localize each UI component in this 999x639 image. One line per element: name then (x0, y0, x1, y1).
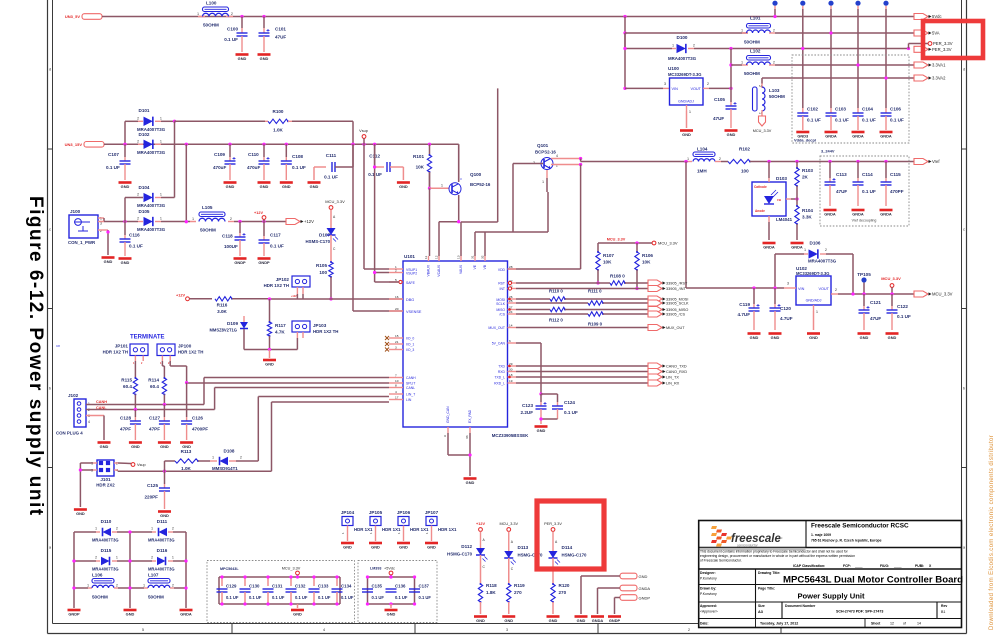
svg-text:MCU_3.3V: MCU_3.3V (325, 199, 345, 204)
svg-text:+12V: +12V (476, 522, 485, 526)
svg-text:GND: GND (809, 335, 818, 340)
red highlight box D114 (537, 501, 604, 569)
diode D105 (138, 221, 143, 223)
svg-text:JP102: JP102 (276, 277, 290, 282)
junction R103 R104 (795, 197, 798, 200)
junction node C100 (240, 15, 243, 18)
wire D100 branch (624, 33, 626, 49)
svg-text:R111 0: R111 0 (588, 289, 602, 294)
svg-text:Approved:: Approved: (700, 604, 717, 608)
svg-text:Vsup: Vsup (359, 129, 368, 133)
svg-text:R118: R118 (486, 583, 497, 588)
svg-text:I/O_0: I/O_0 (406, 337, 414, 341)
svg-text:14: 14 (509, 323, 513, 327)
svg-text:C100: C100 (227, 27, 238, 32)
svg-text:D107: D107 (319, 233, 330, 238)
svg-text:L105: L105 (202, 205, 213, 210)
junction R105-DBG (329, 297, 332, 300)
svg-text:33905_SCLK: 33905_SCLK (666, 302, 689, 306)
ground J102 pin3 (98, 441, 111, 444)
svg-text:2: 2 (835, 288, 837, 292)
svg-text:1: 1 (116, 556, 118, 560)
svg-text:50OHM: 50OHM (744, 71, 760, 76)
flag 33905_SCLK (648, 300, 662, 306)
svg-text:R103: R103 (802, 168, 813, 173)
svg-text:L107: L107 (148, 573, 159, 578)
flag 5VA (914, 30, 928, 36)
svg-text:GND: GND (750, 335, 759, 340)
svg-text:5: 5 (395, 278, 397, 282)
svg-text:GND: GND (399, 544, 408, 549)
svg-text:1: 1 (212, 456, 214, 460)
wire bridge verticals (73, 532, 75, 608)
svg-text:3.0K: 3.0K (217, 309, 227, 314)
svg-text:GND: GND (260, 184, 269, 189)
svg-text:FCP:: FCP: (843, 564, 851, 568)
resistor R100 (265, 120, 268, 122)
svg-text:<Approver>: <Approver> (700, 610, 718, 614)
wire bank2 gnd (390, 604, 392, 608)
capacitor C136 (386, 588, 397, 590)
capacitor C126 (186, 383, 188, 417)
svg-text:0.1 UF: 0.1 UF (226, 595, 239, 600)
svg-text:R109 0: R109 0 (588, 322, 603, 327)
junction R114 CANH (163, 403, 166, 406)
ground C122 (886, 332, 899, 335)
flag 33905_MOSI (648, 296, 662, 302)
svg-text:TXD: TXD (498, 365, 505, 369)
wire U102 VIN drop (685, 162, 687, 289)
svg-text:15: 15 (395, 334, 399, 338)
svg-text:0.1 UF: 0.1 UF (341, 595, 354, 600)
svg-text:+5Vdc: +5Vdc (384, 567, 395, 571)
svg-text:JP101: JP101 (115, 344, 129, 349)
svg-text:MCU_3.3V: MCU_3.3V (658, 241, 678, 246)
svg-text:J100: J100 (70, 209, 81, 214)
wire LIN riser (271, 402, 273, 471)
svg-text:MPC5643L Dual Motor Controller: MPC5643L Dual Motor Controller Board (783, 575, 963, 586)
svg-text:R100: R100 (273, 109, 284, 114)
svg-text:MRA4007T3G: MRA4007T3G (92, 538, 119, 543)
svg-text:PUBI:: PUBI: (915, 564, 924, 568)
svg-text:GND: GND (504, 618, 513, 623)
wire D107 chain (330, 209, 332, 228)
svg-text:GND: GND (260, 56, 269, 61)
svg-text:C116: C116 (129, 233, 140, 238)
svg-text:c: c (963, 228, 965, 232)
svg-text:JP104: JP104 (341, 510, 355, 515)
svg-text:50OHM: 50OHM (200, 228, 216, 233)
svg-text:C120: C120 (780, 306, 791, 311)
svg-text:0.1 UF: 0.1 UF (835, 118, 849, 123)
svg-text:PER_3.3V: PER_3.3V (932, 47, 952, 52)
svg-text:Vsup: Vsup (137, 463, 146, 467)
svg-text:2: 2 (172, 584, 174, 588)
svg-text:2: 2 (137, 193, 139, 197)
svg-text:12: 12 (890, 622, 894, 626)
svg-text:TP105: TP105 (857, 272, 871, 277)
svg-text:4: 4 (395, 390, 397, 394)
svg-text:LM393: LM393 (370, 567, 381, 571)
svg-text:GND: GND (160, 513, 169, 518)
svg-text:1. maje 1009: 1. maje 1009 (811, 533, 831, 537)
svg-text:HDR 1X1: HDR 1X1 (438, 527, 457, 532)
svg-text:JP100: JP100 (178, 344, 192, 349)
junction C108 node (285, 143, 288, 146)
resistor R119 (507, 584, 511, 602)
flag 33905_/RST (648, 280, 662, 286)
junction R106 INT line (635, 287, 638, 290)
svg-text:VOUT: VOUT (690, 87, 701, 91)
svg-text:1: 1 (160, 117, 162, 121)
svg-text:GND: GND (343, 544, 352, 549)
svg-text:1: 1 (160, 217, 162, 221)
svg-text:R113: R113 (181, 449, 192, 454)
svg-text:This document contains informa: This document contains information propr… (700, 550, 849, 554)
svg-text:13: 13 (457, 255, 461, 259)
svg-text:4: 4 (556, 154, 558, 158)
wire D105 or-node vertical (185, 144, 187, 221)
svg-text:GND: GND (76, 511, 85, 516)
svg-text:DBG: DBG (406, 298, 414, 302)
svg-text:4: 4 (323, 628, 325, 632)
svg-text:33905_MISO: 33905_MISO (666, 308, 688, 312)
svg-text:GND: GND (399, 184, 408, 189)
svg-text:MCU_3.3V: MCU_3.3V (753, 129, 772, 133)
wire VOUT rail (838, 293, 914, 295)
svg-text:MCU_3.3V: MCU_3.3V (932, 292, 953, 297)
svg-text:I/O_3: I/O_3 (406, 348, 414, 352)
ground R120 (547, 615, 560, 618)
svg-text:GND: GND (466, 480, 475, 485)
svg-text:D106: D106 (810, 241, 821, 246)
svg-text:100UF: 100UF (224, 244, 238, 249)
svg-text:MRA4007T3G: MRA4007T3G (137, 150, 166, 155)
junction node C101 (262, 15, 265, 18)
junction bridge row2 (72, 559, 75, 562)
svg-text:CANH: CANH (96, 400, 107, 404)
svg-text:R117: R117 (275, 323, 286, 328)
svg-text:MRA4007T3G: MRA4007T3G (668, 56, 697, 61)
svg-text:1.0K: 1.0K (273, 128, 283, 133)
wire bank1 rails (219, 576, 340, 578)
wire U102 gnd pin (813, 305, 815, 311)
svg-text:C129: C129 (226, 584, 237, 589)
terminal UN3_15V (84, 142, 104, 148)
svg-text:270: 270 (514, 590, 522, 595)
wire U100 VOUT (703, 87, 709, 89)
ground C121 (858, 332, 871, 335)
diode D108 (210, 460, 217, 462)
svg-text:C126: C126 (192, 416, 203, 421)
capacitor C110 (263, 144, 265, 157)
flag +12V (286, 219, 300, 225)
svg-text:2: 2 (137, 140, 139, 144)
svg-text:Figure 6-12. Power supply unit: Figure 6-12. Power supply unit (25, 196, 46, 517)
svg-text:CON_1_PWR: CON_1_PWR (68, 240, 96, 245)
svg-text:Drawing Title:: Drawing Title: (758, 571, 780, 575)
ground C127 (158, 441, 171, 444)
svg-text:GND: GND (771, 335, 780, 340)
ground C102 (796, 131, 809, 134)
svg-text:C111: C111 (326, 153, 337, 158)
svg-text:2: 2 (231, 12, 233, 16)
svg-text:c: c (49, 228, 51, 232)
svg-text:C101: C101 (275, 27, 286, 32)
ground C109 (224, 181, 237, 184)
svg-text:Sheet: Sheet (871, 622, 881, 626)
svg-text:5: 5 (142, 628, 144, 632)
wire D101 branch vertical left (124, 121, 126, 144)
transistor Q100 (449, 183, 461, 195)
svg-text:50OHM: 50OHM (769, 94, 785, 99)
svg-text:31: 31 (471, 255, 475, 259)
svg-text:2: 2 (95, 556, 97, 560)
svg-text:Power Supply Unit: Power Supply Unit (797, 592, 865, 601)
wire Q101 loop to VE VB (475, 231, 513, 233)
svg-text:1: 1 (95, 527, 97, 531)
dashed box Vref decoupling (820, 156, 909, 226)
svg-text:Vref decoupling: Vref decoupling (852, 219, 877, 223)
bottom border frame lines (48, 633, 967, 635)
svg-text:C124: C124 (564, 400, 575, 405)
svg-text:47PF: 47PF (149, 427, 160, 432)
diode D102 (138, 143, 143, 145)
red highlight box top right (923, 21, 983, 58)
svg-text:GNDA: GNDA (592, 618, 604, 623)
svg-text:MRA4007T3G: MRA4007T3G (148, 538, 175, 543)
connector J102 (74, 399, 86, 427)
svg-text:C136: C136 (395, 584, 406, 589)
svg-text:10K: 10K (642, 260, 651, 265)
svg-text:MRA4007T3G: MRA4007T3G (137, 203, 166, 208)
ground C116 (119, 257, 132, 260)
ground C103 (825, 131, 838, 134)
flag Vref (914, 159, 928, 165)
ground C125 (158, 510, 171, 513)
capacitor C129 (221, 577, 223, 586)
svg-text:C103: C103 (835, 107, 846, 112)
wire SCLK line with resistor (516, 302, 588, 304)
svg-text:J102: J102 (68, 393, 79, 398)
svg-text:of Freescale Semiconductor.: of Freescale Semiconductor. (700, 559, 742, 563)
svg-text:GND: GND (577, 618, 586, 623)
svg-text:33: 33 (465, 435, 469, 439)
junction Vsup-D105 riser (185, 143, 188, 146)
svg-text:3: 3 (787, 282, 789, 286)
border zone ticks left (48, 148, 53, 150)
svg-text:3..244V: 3..244V (821, 149, 835, 154)
capacitor C101 (263, 17, 265, 29)
U101 RST INT circles (508, 281, 511, 284)
svg-text:BCPS2-16: BCPS2-16 (535, 150, 556, 155)
svg-text:Freescale Semiconductor RCSC: Freescale Semiconductor RCSC (811, 523, 909, 530)
svg-text:50OHM: 50OHM (92, 595, 108, 600)
svg-text:C130: C130 (249, 584, 260, 589)
svg-text:GND: GND (160, 444, 169, 449)
svg-text:765 61 Roznov p. R. Czech repu: 765 61 Roznov p. R. Czech republic, Euro… (811, 539, 882, 543)
U101 MOSI TXD red dots (508, 298, 511, 301)
wire JP100 right pin to SPLIT (169, 361, 171, 366)
wire J100 pin1 to 12V rail (98, 217, 104, 219)
svg-text:5VA: 5VA (932, 31, 940, 36)
zener ref D103 (752, 182, 786, 216)
svg-text:d: d (49, 68, 51, 72)
svg-text:1: 1 (804, 248, 806, 252)
svg-text:270: 270 (559, 590, 567, 595)
junction bridge row1 (128, 530, 131, 533)
svg-text:33905_/INT: 33905_/INT (666, 287, 687, 291)
svg-text:R105: R105 (316, 263, 327, 268)
ground C104 (852, 131, 865, 134)
ground U102 (807, 332, 820, 335)
svg-text:12: 12 (435, 255, 439, 259)
svg-text:Downloaded from Elcodis.com el: Downloaded from Elcodis.com electronic c… (989, 435, 995, 630)
svg-text:C128: C128 (120, 416, 131, 421)
svg-text:C121: C121 (870, 300, 881, 305)
svg-text:C125: C125 (147, 483, 158, 488)
svg-text:VE: VE (473, 264, 477, 269)
svg-text:C119: C119 (739, 302, 750, 307)
ground C110 (258, 181, 271, 184)
svg-text:GNDP: GNDP (234, 260, 246, 265)
resistor R103 (795, 160, 798, 163)
freescale logo marks (711, 526, 717, 529)
ground C105 (725, 129, 738, 132)
capacitor C102 (802, 108, 804, 113)
svg-text:0.1 UF: 0.1 UF (862, 189, 876, 194)
svg-text:470uF: 470uF (213, 165, 226, 170)
svg-text:60.4: 60.4 (123, 384, 132, 389)
ground C114 GNDA (852, 209, 865, 212)
svg-text:R108 0: R108 0 (610, 274, 625, 279)
wire VSENSE riser (352, 144, 354, 311)
capacitor C104 (857, 108, 859, 113)
power arrow MCU_3.3V down (759, 116, 766, 126)
svg-text:EX_PAD: EX_PAD (468, 409, 472, 423)
wire J100 pin2 to gnd (98, 229, 108, 231)
svg-text:CANL: CANL (406, 386, 415, 390)
svg-text:C127: C127 (149, 416, 160, 421)
svg-text:HDR 2X2: HDR 2X2 (96, 483, 115, 488)
svg-text:0.1 UF: 0.1 UF (318, 595, 331, 600)
svg-text:MRA4007T3G: MRA4007T3G (137, 227, 166, 232)
svg-text:MCU_3.3V: MCU_3.3V (282, 567, 301, 571)
svg-text:engineering design, procuremen: engineering design, procurement or manuf… (700, 554, 855, 558)
ground GND bridge (124, 609, 137, 612)
junction C110 node (262, 143, 265, 146)
capacitor C108 (285, 144, 287, 157)
svg-text:3: 3 (664, 82, 666, 86)
svg-text:VAUX: VAUX (459, 264, 463, 274)
capacitor C128 (134, 410, 136, 418)
U101 SAFE circle (399, 280, 402, 283)
ground C107 (119, 181, 132, 184)
led D114 chain (552, 531, 554, 551)
svg-text:10K: 10K (603, 260, 612, 265)
svg-text:HDR 1X1: HDR 1X1 (354, 527, 373, 532)
svg-text:GND: GND (121, 184, 130, 189)
capacitor C118 (239, 222, 241, 234)
ground C111 (308, 181, 321, 184)
svg-text:R116: R116 (217, 303, 228, 308)
ground C126 (180, 441, 193, 444)
diode D111 (130, 531, 152, 533)
svg-text:33905_/RST: 33905_/RST (666, 282, 688, 286)
svg-text:TERMINATE: TERMINATE (130, 335, 165, 341)
svg-text:HDR 1X2 TH: HDR 1X2 TH (103, 350, 128, 355)
svg-text:of: of (903, 622, 906, 626)
svg-text:Vref: Vref (932, 159, 940, 164)
wire GND_CAN EX_PAD (447, 433, 449, 455)
svg-text:GND: GND (126, 611, 135, 616)
vertical drop 4 3.3VA1 (857, 9, 859, 108)
svg-text:FIUO:: FIUO: (880, 564, 889, 568)
wire VE VB from Q101 loop (474, 232, 476, 256)
svg-text:GND: GND (121, 260, 130, 265)
svg-text:+12V: +12V (291, 295, 297, 298)
svg-text:HSMG-C170: HSMG-C170 (447, 552, 473, 557)
svg-text:HDR 1X2 TH: HDR 1X2 TH (313, 329, 338, 334)
svg-text:1: 1 (172, 556, 174, 560)
svg-text:SCLK: SCLK (496, 302, 506, 306)
svg-text:R101: R101 (413, 154, 424, 159)
ground JP107 (425, 542, 438, 545)
svg-text:U100: U100 (668, 66, 679, 71)
ground C100 (236, 53, 249, 56)
ground GNDP bridge (68, 609, 81, 612)
svg-text:VOUT: VOUT (818, 287, 829, 291)
svg-text:100: 100 (319, 270, 327, 275)
svg-text:D102: D102 (139, 132, 150, 137)
terminal UN3_5V (82, 14, 102, 20)
svg-text:47UF: 47UF (836, 189, 847, 194)
svg-text:2: 2 (137, 117, 139, 121)
junction D101 out (173, 120, 176, 123)
svg-text:RST: RST (498, 282, 505, 286)
svg-text:2: 2 (116, 527, 118, 531)
svg-text:MC33269DT-3.3G: MC33269DT-3.3G (796, 271, 829, 276)
svg-text:/CS: /CS (499, 313, 505, 317)
svg-text:CANH: CANH (406, 376, 416, 380)
ground R118 (474, 615, 487, 618)
svg-text:0.1 UF: 0.1 UF (395, 595, 408, 600)
junction C109 node (228, 143, 231, 146)
ground C106 (880, 131, 893, 134)
wire JP100 pins down (161, 356, 163, 362)
svg-text:J101: J101 (100, 477, 111, 482)
svg-text:LIN: LIN (406, 398, 412, 402)
svg-text:0.1 UF: 0.1 UF (270, 244, 284, 249)
ground C115 GNDA (880, 209, 893, 212)
wire Q101 base loop (513, 163, 543, 165)
svg-text:R120: R120 (559, 583, 570, 588)
junction D106 out (851, 292, 854, 295)
terminal flag GND (620, 573, 637, 579)
svg-text:2: 2 (693, 44, 695, 48)
junction TP105 (862, 292, 865, 295)
wire J101 pin2 to Vsup (114, 462, 118, 464)
inductor L101 (742, 32, 748, 34)
ground bank2 (385, 609, 398, 612)
svg-text:L106: L106 (92, 573, 103, 578)
ground U100 (680, 129, 693, 132)
svg-text:VDD: VDD (498, 268, 506, 272)
svg-text:19: 19 (509, 379, 513, 383)
svg-text:HSMG-C170: HSMG-C170 (562, 553, 588, 558)
left border frame lines (47, 0, 49, 634)
wire MOSI line with resistor (516, 298, 550, 300)
